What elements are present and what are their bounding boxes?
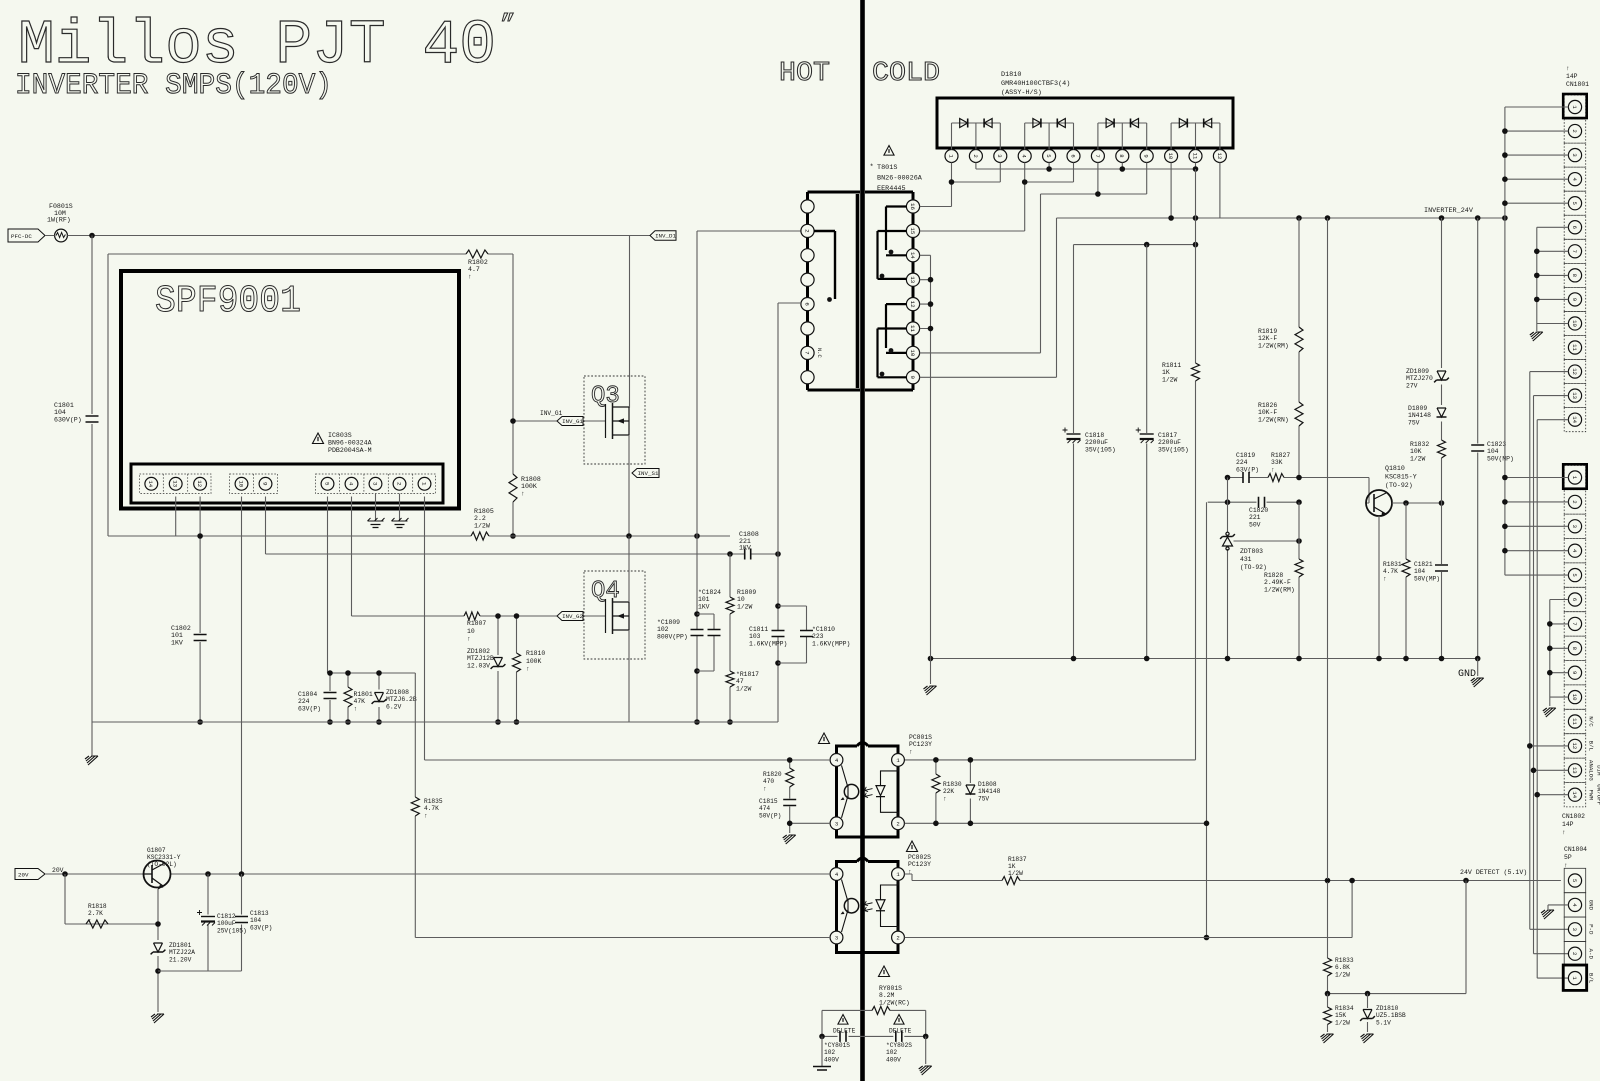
svg-text:(TO-92): (TO-92) [1240, 564, 1267, 571]
svg-text:P-D: P-D [1588, 924, 1595, 935]
capacitor C1811 [772, 631, 785, 637]
svg-text:SPF9001: SPF9001 [155, 280, 301, 323]
svg-text:C1802: C1802 [171, 625, 191, 632]
connector CN1801 pin 8 [1568, 269, 1581, 282]
wire SPF pin5 to snubber bracket [328, 497, 416, 674]
wire R1819 R1826 chain [1298, 218, 1300, 478]
wire R1835 branch [415, 673, 830, 938]
wire CN1801 pin14 drop [1537, 420, 1568, 978]
svg-text:MTZJ12B: MTZJ12B [467, 655, 494, 662]
connector CN1804 pin 1 [1568, 972, 1581, 985]
wire ZD1810 branch [1367, 994, 1369, 1032]
svg-text:21.20V: 21.20V [169, 956, 192, 963]
transformer primary pin row 8 [801, 371, 814, 384]
svg-text:13: 13 [909, 276, 916, 283]
svg-text:1/2W: 1/2W [736, 685, 752, 692]
connector CN1801 pin 9 [1568, 293, 1581, 306]
svg-text:7: 7 [803, 351, 810, 355]
transformer secondary pin 16 [906, 200, 919, 213]
svg-text:D1809: D1809 [1408, 405, 1427, 412]
diode block D1810 pin 4 [1018, 150, 1031, 163]
svg-text:INV_G2: INV_G2 [562, 613, 583, 620]
connector CN1801 pin 5 [1568, 197, 1581, 210]
net flag INV_G1 box [557, 417, 583, 426]
polarity dot primary [827, 297, 832, 302]
resistor R1810 [513, 653, 521, 672]
wire PFC-DC to INV_D1 rail [45, 235, 650, 237]
junction collector line [1403, 500, 1444, 506]
wire R1833 chain [1327, 218, 1329, 994]
net label 20V [15, 869, 45, 880]
label ZDT803 [1240, 548, 1267, 571]
svg-text:8: 8 [1571, 274, 1578, 277]
svg-text:R1828: R1828 [1264, 572, 1283, 579]
label C1817 [1158, 432, 1189, 453]
connector CN1802 pin 4 [1568, 544, 1581, 557]
svg-text:14: 14 [1571, 416, 1578, 423]
resistor R1802 [466, 250, 488, 258]
svg-text:16: 16 [909, 203, 916, 210]
label R1831 [1383, 561, 1402, 582]
svg-text:12.03V: 12.03V [467, 662, 490, 669]
optocoupler PC802S outline [837, 858, 899, 953]
resistor R1831 [1402, 559, 1410, 577]
label C1813 [250, 910, 272, 931]
svg-text:BN96-00324A: BN96-00324A [328, 440, 372, 447]
svg-text:9: 9 [1571, 671, 1578, 674]
wire G1807 emitter chain [65, 874, 158, 1012]
svg-text:*CY801S: *CY801S [824, 1042, 850, 1049]
wire CY caps line [822, 1035, 926, 1037]
svg-text:MTZJ6.2B: MTZJ6.2B [386, 696, 417, 703]
IC SPF9001 pin 1 [418, 477, 431, 490]
wire Q1810 collector line [1392, 502, 1442, 504]
svg-text:3: 3 [835, 820, 838, 827]
diode block D1810 pin 12 [1213, 150, 1226, 163]
svg-text:*C1810: *C1810 [812, 626, 835, 633]
wire C1819 R1827 feedback line [1228, 478, 1370, 504]
wire D1810 diode pair group 2 [1025, 123, 1074, 150]
svg-text:R1811: R1811 [1162, 362, 1181, 369]
resistor R1808 [509, 474, 517, 502]
svg-text:1/2W: 1/2W [1335, 1019, 1350, 1026]
label R1805 [474, 508, 494, 529]
svg-text:1KV: 1KV [171, 639, 183, 646]
svg-text:50V: 50V [1249, 521, 1261, 528]
svg-text:6: 6 [1571, 598, 1578, 601]
wire Q4 source [628, 630, 630, 722]
svg-text:↑: ↑ [424, 812, 428, 819]
svg-text:R1830: R1830 [943, 781, 962, 788]
wire ZD1809 D1809 R1832 chain [1441, 218, 1443, 659]
wire SPF pin1 / opto1 pin4 line [425, 759, 831, 761]
wire R1831 branch [1405, 503, 1407, 659]
wire CN1801 pins6-10 ground bracket [1537, 227, 1569, 331]
svg-text:47: 47 [736, 678, 744, 685]
transformer primary polarity bracket [814, 231, 835, 299]
svg-text:27V: 27V [1406, 382, 1418, 389]
svg-text:11: 11 [1191, 153, 1198, 160]
connector CN1802 pin 9 [1568, 666, 1581, 679]
label C1821 [1414, 561, 1440, 582]
svg-text:R1819: R1819 [1258, 328, 1277, 335]
junction gate2 line [495, 613, 519, 725]
wire opto2 pin2 line [905, 881, 1353, 938]
capacitor C1808 [745, 549, 751, 560]
wire D1808 branch [969, 760, 971, 823]
wire D1810 diode pair group 4 [1171, 123, 1220, 150]
svg-text:↑: ↑ [1383, 575, 1387, 582]
svg-text:50V(MP): 50V(MP) [1414, 575, 1440, 582]
svg-text:C1823: C1823 [1487, 441, 1506, 448]
label R1826 [1258, 402, 1289, 423]
svg-text:5: 5 [1571, 879, 1578, 882]
svg-text:CN1804: CN1804 [1564, 846, 1587, 853]
ground C1801 [85, 756, 98, 765]
wire R1810 branch [516, 616, 518, 722]
svg-text:22K: 22K [943, 788, 954, 795]
svg-text:1/2W(RM): 1/2W(RM) [1264, 586, 1295, 593]
junction cathode bus [1046, 166, 1198, 172]
wire smoothing cap top tie y=244.6 [1074, 244, 1196, 246]
transistor Q1810 [1366, 490, 1392, 516]
svg-text:4.7K: 4.7K [424, 805, 439, 812]
svg-text:R1835: R1835 [424, 798, 443, 805]
svg-text:R1808: R1808 [521, 476, 541, 483]
wire R1830 branch [935, 760, 937, 823]
transformer primary pin row 3 [801, 249, 814, 262]
svg-text:*R1817: *R1817 [736, 671, 759, 678]
svg-text:2.7K: 2.7K [88, 910, 103, 917]
svg-text:2: 2 [1571, 500, 1578, 503]
wire C1801 branch [91, 236, 93, 723]
svg-text:6: 6 [1069, 154, 1076, 157]
svg-text:50V(P): 50V(P) [759, 812, 781, 819]
diode block D1810 pin 6 [1067, 150, 1080, 163]
optocoupler PC802S pin 4 [830, 868, 843, 881]
diode D1810 group 2 right [1057, 119, 1065, 128]
optocoupler PC802S pin 3 [830, 931, 843, 944]
svg-text:MTZJ270: MTZJ270 [1406, 375, 1433, 382]
label R1820 [763, 771, 782, 792]
svg-text:1KV: 1KV [698, 603, 710, 610]
junction C1811 nodes [775, 603, 781, 666]
svg-text:3: 3 [1571, 153, 1578, 156]
label C1819 [1236, 452, 1259, 473]
optocoupler PC801S pin 4 [830, 754, 843, 767]
resistor R1801 [344, 687, 352, 707]
wire RY801S bridge [822, 1010, 926, 1036]
svg-text:↑: ↑ [467, 636, 471, 643]
svg-text:14P: 14P [1562, 821, 1574, 828]
ground CN1804 pin4 [1541, 910, 1554, 919]
net flag INV_S1 box [632, 469, 659, 478]
svg-text:DIM: DIM [1596, 765, 1600, 776]
wire divider node [1328, 881, 1467, 994]
label R1832 [1410, 441, 1429, 462]
wire CN1801 pin12 drop [1530, 372, 1569, 930]
connector CN1804 cells [1564, 868, 1586, 990]
connector CN1804 pin 3 [1568, 923, 1581, 936]
label Q1807 [147, 847, 181, 868]
shunt regulator ZDT803 [1220, 532, 1235, 550]
svg-text:R1832: R1832 [1410, 441, 1429, 448]
svg-text:12: 12 [1571, 743, 1578, 750]
wire C1818 branch [1073, 245, 1075, 659]
zener ZD1810 [1360, 1010, 1375, 1021]
svg-text:12: 12 [196, 480, 203, 487]
svg-text:↑: ↑ [354, 705, 358, 712]
net flag INV_G2 box [557, 612, 583, 621]
svg-text:400V: 400V [824, 1056, 839, 1063]
capacitor C1802 [194, 635, 207, 641]
connector CN1802 pin 10 [1568, 691, 1581, 704]
label C1823 [1487, 441, 1514, 462]
junction R1820 nodes [787, 757, 793, 826]
svg-text:12: 12 [1216, 153, 1223, 160]
wire INV_G1 stub [513, 420, 606, 422]
wire Q1810 emitter [1378, 516, 1380, 659]
wire R1834 branch [1327, 994, 1329, 1032]
label R1830 [943, 781, 962, 802]
svg-text:R1820: R1820 [763, 771, 782, 778]
warning triangle transformer [884, 146, 894, 156]
label R1807 [467, 620, 486, 643]
svg-text:7: 7 [1094, 154, 1101, 157]
wire R1809 R1817 chain [729, 554, 731, 722]
connector CN1802 pin 2 [1568, 495, 1581, 508]
connector CN1801 pin 3 [1568, 149, 1581, 162]
diode block D1810 pin 9 [1140, 150, 1153, 163]
svg-text:C1821: C1821 [1414, 561, 1433, 568]
capacitor C1801 [86, 416, 99, 422]
svg-text:13: 13 [1571, 392, 1578, 399]
diode block D1810 pin 2 [969, 150, 982, 163]
ground CN1801 [1530, 332, 1543, 341]
wire CN1801 pins1-4 bus [1505, 107, 1569, 218]
wire xfmr pins14-11 return [920, 255, 931, 658]
wire C1801 ground stem [91, 722, 93, 756]
resistor R1809 [726, 597, 734, 614]
wire C1824 bracket [697, 614, 714, 671]
transformer secondary pin 15 [906, 224, 919, 237]
diode block D1810 pin 10 [1165, 150, 1178, 163]
svg-text:33K: 33K [1271, 459, 1283, 466]
transistor Q4 dashed box [584, 571, 645, 659]
svg-text:8: 8 [1571, 647, 1578, 650]
warning triangle PC801S [818, 733, 829, 744]
svg-text:14P: 14P [1566, 73, 1578, 80]
svg-text:2: 2 [395, 482, 402, 486]
svg-text:100uF: 100uF [217, 920, 236, 927]
svg-text:PC123Y: PC123Y [909, 741, 932, 748]
wire SPF pin10 long drop [241, 497, 243, 875]
connector CN1801 cells [1564, 95, 1586, 432]
svg-text:R1801: R1801 [354, 691, 373, 698]
svg-text:470: 470 [763, 778, 774, 785]
IC SPF9001 pin 2 [393, 477, 406, 490]
net flag INV_D1 box [650, 231, 676, 241]
svg-text:102: 102 [886, 1049, 897, 1056]
wire CY801S ground stem [821, 1036, 823, 1066]
warning triangle CY802S [894, 1015, 904, 1025]
label R1801 [354, 691, 373, 712]
svg-text:10: 10 [909, 349, 916, 356]
label CN1804 [1564, 846, 1587, 869]
svg-text:PDB2004SA-M: PDB2004SA-M [328, 447, 372, 454]
svg-text:9: 9 [909, 376, 916, 380]
hot-cold divider line [860, 0, 865, 1081]
junction C1820 nodes [1225, 499, 1302, 505]
svg-text:GND: GND [1588, 900, 1595, 911]
capacitor C1810 [800, 631, 813, 637]
warning triangle CY801S [838, 1015, 848, 1025]
label D1809 [1408, 405, 1431, 426]
svg-text:R1827: R1827 [1271, 452, 1290, 459]
wire SPF pin4 gate2 line [352, 497, 606, 617]
svg-text:400V: 400V [886, 1056, 901, 1063]
label R1802 [468, 259, 488, 280]
optocoupler PC801S outline [837, 743, 899, 838]
wire CN1802 pin14 stub [1537, 794, 1568, 796]
svg-text:B/L: B/L [1588, 741, 1595, 752]
connector CN1802 pin 11 [1568, 715, 1581, 728]
svg-text:4.7: 4.7 [468, 266, 480, 273]
wire TL431 to opto cathode [1206, 502, 1208, 937]
junction emitter node [155, 921, 161, 974]
transistor G1807 [144, 861, 171, 890]
svg-text:PWM: PWM [1588, 789, 1595, 800]
svg-text:C1815: C1815 [759, 798, 778, 805]
warning triangle PC802S [906, 841, 917, 852]
svg-text:1/2W: 1/2W [1008, 870, 1023, 877]
svg-text:63V(P): 63V(P) [250, 924, 272, 931]
connector CN1802 cells pin1 emphasis box [1563, 464, 1587, 488]
svg-text:223: 223 [812, 633, 824, 640]
label C1804 [298, 691, 321, 712]
label R1811 [1162, 362, 1181, 383]
label C1811 [749, 626, 787, 647]
svg-text:R1831: R1831 [1383, 561, 1402, 568]
label CN1801 [1566, 65, 1589, 88]
junction pins7-9 tie [1095, 191, 1101, 197]
svg-text:INVERTER_24V: INVERTER_24V [1424, 207, 1474, 215]
resistor R1830 [932, 774, 940, 793]
optocoupler PC802S phototransistor [841, 880, 859, 933]
connector CN1801 pin 2 [1568, 124, 1581, 137]
svg-text:”: ” [500, 10, 516, 40]
svg-text:ZDT803: ZDT803 [1240, 548, 1263, 555]
wire SPF pin13 [175, 497, 177, 537]
svg-text:(ASSY-H/S): (ASSY-H/S) [1001, 89, 1042, 97]
junction INVERTER_24V rail [1168, 215, 1507, 221]
junction CN1801 gnd bracket [1534, 249, 1540, 303]
svg-text:11: 11 [1571, 344, 1578, 351]
svg-text:*: * [870, 164, 874, 172]
svg-text:RY801S: RY801S [879, 985, 902, 992]
capacitor C1820 [1259, 497, 1265, 508]
junction cap tie [1144, 242, 1198, 248]
ground SPF pin3 stem [376, 494, 400, 521]
junction INV_G1 [510, 418, 516, 539]
svg-text:3: 3 [371, 482, 378, 486]
label C1808 [739, 531, 759, 552]
svg-text:35V(105): 35V(105) [1158, 446, 1189, 453]
svg-text:1KV: 1KV [739, 545, 751, 552]
svg-text:10: 10 [467, 628, 475, 635]
IC SPF9001 pin 13 [169, 477, 182, 490]
connector CN1804 pin1 emphasis box [1563, 965, 1587, 990]
svg-text:8: 8 [1118, 154, 1125, 157]
ground ZD1801 [151, 1014, 164, 1023]
svg-text:BN26-00026A: BN26-00026A [877, 174, 923, 182]
svg-text:1/2W: 1/2W [1410, 455, 1426, 462]
transformer primary pin row 7 [801, 346, 814, 359]
svg-text:100K: 100K [526, 658, 542, 665]
capacitor C1821 [1435, 565, 1448, 571]
svg-text:50V(MP): 50V(MP) [1487, 455, 1514, 462]
svg-text:ZD1810: ZD1810 [1376, 1005, 1399, 1012]
transformer primary pin row 5 [801, 298, 814, 311]
svg-text:12: 12 [909, 301, 916, 308]
svg-text:1/2W: 1/2W [737, 603, 753, 610]
svg-text:PC802S: PC802S [908, 854, 931, 861]
svg-text:C1819: C1819 [1236, 452, 1255, 459]
connector CN1801 pin 6 [1568, 221, 1581, 234]
connector CN1802 pin 14 [1568, 788, 1581, 801]
svg-text:2: 2 [803, 229, 810, 233]
ground CY802S [919, 1066, 932, 1075]
transformer secondary pin 9 [906, 371, 919, 384]
transistor Q3 dashed box [584, 376, 645, 464]
wire C1823 branch [1477, 218, 1479, 659]
IC SPF9001 pin 5 [321, 477, 334, 490]
connector CN1801 pin 14 [1568, 413, 1581, 426]
label C1820 [1249, 507, 1268, 528]
optocoupler PC801S LED [865, 766, 899, 816]
capacitor CY801S [840, 1031, 846, 1042]
diode D1810 group 4 right [1204, 119, 1212, 128]
transformer secondary pin 11 [906, 322, 919, 335]
wire CN1802 pin12 stub [1530, 745, 1569, 747]
svg-text:IC803S: IC803S [328, 432, 352, 439]
label R1835 [424, 798, 443, 819]
svg-text:5: 5 [1571, 573, 1578, 576]
label CY801S [824, 1042, 850, 1063]
svg-text:20V: 20V [52, 867, 64, 874]
connector CN1801 cells pin1 emphasis box [1563, 94, 1587, 118]
svg-text:C1813: C1813 [250, 910, 269, 917]
junction CY caps [819, 1034, 928, 1040]
svg-text:DELETE: DELETE [833, 1028, 856, 1035]
wire D1810 diode pair group 3 [1098, 123, 1147, 150]
label ZD1810 [1376, 1005, 1406, 1026]
capacitor C1818 [1063, 428, 1081, 444]
zener ZD1802 [491, 658, 506, 669]
wire C1812 C1813 branch [158, 874, 242, 971]
svg-text:1/2W(RM): 1/2W(RM) [1258, 342, 1289, 349]
svg-text:R1807: R1807 [467, 620, 486, 627]
ground secondary bus [924, 686, 937, 695]
label ZD1801 [169, 942, 195, 963]
diode block D1810 pin 5 [1043, 150, 1056, 163]
wire CN1802 pins6-10 ground bracket [1550, 600, 1569, 707]
svg-text:R1833: R1833 [1335, 957, 1354, 964]
svg-text:2.49K-F: 2.49K-F [1264, 579, 1291, 586]
svg-text:1: 1 [420, 482, 427, 486]
label C1802 [171, 625, 191, 646]
svg-text:R1810: R1810 [526, 650, 545, 657]
